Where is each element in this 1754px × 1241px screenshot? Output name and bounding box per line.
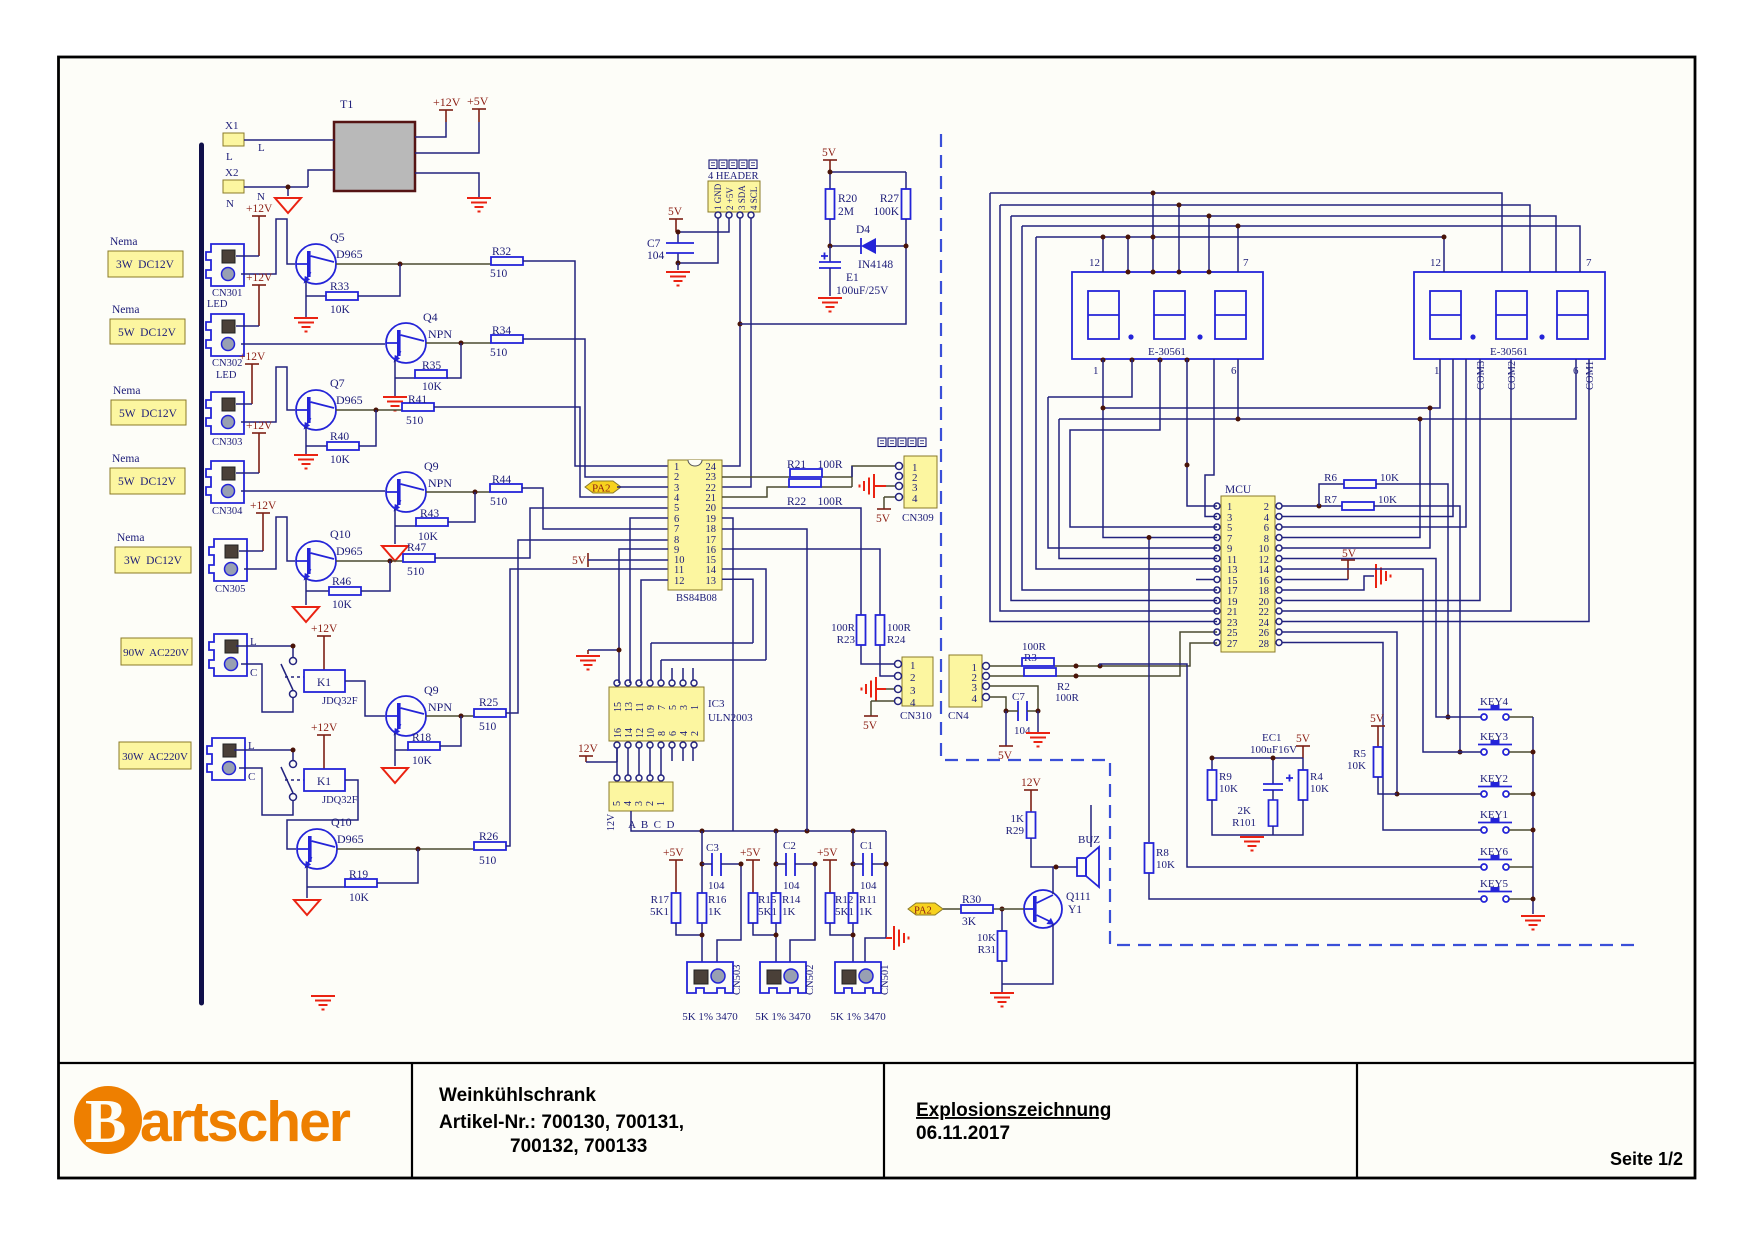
svg-text:N: N xyxy=(226,198,234,210)
svg-text:E1: E1 xyxy=(846,272,859,284)
svg-text:D965: D965 xyxy=(336,393,363,407)
svg-text:10K: 10K xyxy=(349,892,370,904)
svg-text:9: 9 xyxy=(646,705,657,710)
svg-text:+12V: +12V xyxy=(311,623,338,635)
svg-text:16: 16 xyxy=(613,728,624,738)
svg-text:Nema: Nema xyxy=(112,304,139,316)
svg-text:12V: 12V xyxy=(578,743,599,755)
svg-text:23: 23 xyxy=(706,472,717,483)
svg-text:COM1: COM1 xyxy=(1585,361,1596,390)
svg-text:3W DC12V: 3W DC12V xyxy=(116,259,175,271)
svg-text:R19: R19 xyxy=(349,869,368,881)
svg-text:Q5: Q5 xyxy=(330,230,345,244)
svg-text:4: 4 xyxy=(912,493,918,505)
svg-text:CN501: CN501 xyxy=(880,965,891,995)
svg-text:C2: C2 xyxy=(783,840,796,852)
svg-text:PA2: PA2 xyxy=(592,483,611,495)
svg-text:510: 510 xyxy=(407,566,425,578)
svg-text:100uF16V: 100uF16V xyxy=(1250,744,1297,756)
svg-text:R17: R17 xyxy=(651,894,670,906)
svg-text:3 SDA: 3 SDA xyxy=(737,185,747,210)
svg-text:R34: R34 xyxy=(492,325,511,337)
svg-text:R23: R23 xyxy=(837,634,856,646)
svg-text:6: 6 xyxy=(1264,523,1269,534)
svg-text:27: 27 xyxy=(1227,639,1238,650)
svg-text:510: 510 xyxy=(490,496,508,508)
svg-text:7: 7 xyxy=(657,705,668,710)
svg-text:104: 104 xyxy=(860,880,877,892)
svg-text:R27: R27 xyxy=(880,193,899,205)
svg-text:104: 104 xyxy=(783,880,800,892)
svg-text:10K: 10K xyxy=(1380,472,1399,484)
svg-text:25: 25 xyxy=(1227,628,1238,639)
svg-text:5W DC12V: 5W DC12V xyxy=(118,327,177,339)
svg-text:BUZ: BUZ xyxy=(1078,834,1100,846)
svg-text:+5V: +5V xyxy=(467,94,489,108)
svg-text:4 SCL: 4 SCL xyxy=(749,187,759,210)
svg-text:Artikel-Nr.: 700130, 700131,: Artikel-Nr.: 700130, 700131, xyxy=(439,1112,684,1133)
svg-text:K1: K1 xyxy=(317,677,331,689)
svg-text:510: 510 xyxy=(490,268,508,280)
svg-text:5V: 5V xyxy=(1296,733,1311,745)
svg-text:EC1: EC1 xyxy=(1262,732,1282,744)
svg-text:100uF/25V: 100uF/25V xyxy=(836,285,889,297)
svg-text:4 HEADER: 4 HEADER xyxy=(708,171,758,182)
svg-text:2M: 2M xyxy=(838,206,854,218)
svg-text:5V: 5V xyxy=(876,513,891,525)
svg-text:5V: 5V xyxy=(863,720,878,732)
svg-text:2: 2 xyxy=(690,731,701,736)
svg-text:A B C D: A B C D xyxy=(628,819,675,831)
svg-text:12: 12 xyxy=(635,728,646,738)
svg-text:NPN: NPN xyxy=(428,327,452,341)
svg-text:Y1: Y1 xyxy=(1068,904,1082,916)
svg-text:CN303: CN303 xyxy=(212,437,242,448)
svg-text:R44: R44 xyxy=(492,474,511,486)
svg-text:+5V: +5V xyxy=(740,847,761,859)
svg-text:K1: K1 xyxy=(317,776,331,788)
svg-text:1K: 1K xyxy=(859,906,873,918)
svg-text:3W DC12V: 3W DC12V xyxy=(124,555,183,567)
svg-text:R4: R4 xyxy=(1310,771,1323,783)
svg-text:Nema: Nema xyxy=(113,385,140,397)
svg-text:R6: R6 xyxy=(1324,472,1337,484)
svg-text:10K: 10K xyxy=(422,381,443,393)
svg-text:5V: 5V xyxy=(822,147,837,159)
svg-text:Q4: Q4 xyxy=(423,310,438,324)
svg-text:CN310: CN310 xyxy=(900,710,932,722)
svg-text:N: N xyxy=(257,191,265,203)
svg-text:5: 5 xyxy=(668,705,679,710)
svg-text:CN309: CN309 xyxy=(902,512,934,524)
svg-text:IC3: IC3 xyxy=(708,698,725,710)
svg-text:10K: 10K xyxy=(1156,859,1175,871)
svg-text:8: 8 xyxy=(657,731,668,736)
svg-text:R25: R25 xyxy=(479,697,498,709)
svg-text:12: 12 xyxy=(674,576,685,587)
svg-text:11: 11 xyxy=(635,702,646,712)
svg-text:5: 5 xyxy=(1227,523,1232,534)
svg-text:14: 14 xyxy=(1259,565,1270,576)
svg-text:100R: 100R xyxy=(887,622,912,634)
svg-text:20: 20 xyxy=(706,503,717,514)
svg-text:D965: D965 xyxy=(337,832,364,846)
svg-text:IN4148: IN4148 xyxy=(858,259,893,271)
svg-text:4: 4 xyxy=(623,801,634,806)
svg-text:14: 14 xyxy=(624,728,635,738)
svg-text:JDQ32F: JDQ32F xyxy=(322,795,358,806)
svg-text:12: 12 xyxy=(1089,257,1100,269)
svg-text:+5V: +5V xyxy=(663,847,684,859)
svg-text:D965: D965 xyxy=(336,544,363,558)
svg-text:R18: R18 xyxy=(412,732,431,744)
svg-text:10K: 10K xyxy=(332,599,353,611)
svg-text:700132, 700133: 700132, 700133 xyxy=(510,1136,647,1157)
svg-text:10K: 10K xyxy=(1219,783,1238,795)
svg-text:17: 17 xyxy=(1227,586,1238,597)
svg-text:COM3: COM3 xyxy=(1476,361,1487,390)
svg-text:28: 28 xyxy=(1259,639,1270,650)
svg-text:26: 26 xyxy=(1259,628,1270,639)
svg-text:100R: 100R xyxy=(1055,692,1080,704)
svg-text:R5: R5 xyxy=(1353,748,1366,760)
svg-text:2K: 2K xyxy=(1238,805,1252,817)
svg-text:5V: 5V xyxy=(1370,713,1385,725)
svg-text:+12V: +12V xyxy=(246,272,273,284)
svg-text:12V: 12V xyxy=(606,813,617,831)
svg-text:Q9: Q9 xyxy=(424,683,439,697)
svg-text:MCU: MCU xyxy=(1225,484,1252,496)
svg-text:30W AC220V: 30W AC220V xyxy=(122,751,188,763)
svg-text:+5V: +5V xyxy=(817,847,838,859)
svg-text:+12V: +12V xyxy=(246,203,273,215)
svg-text:CN304: CN304 xyxy=(212,506,243,517)
svg-text:R40: R40 xyxy=(330,431,349,443)
svg-text:+12V: +12V xyxy=(239,351,266,363)
svg-text:7: 7 xyxy=(1243,257,1249,269)
svg-text:R30: R30 xyxy=(962,894,981,906)
svg-text:5K1: 5K1 xyxy=(835,906,854,918)
svg-text:COM2: COM2 xyxy=(1507,361,1518,390)
svg-text:10K: 10K xyxy=(412,755,433,767)
svg-text:C: C xyxy=(250,667,257,679)
svg-text:R8: R8 xyxy=(1156,847,1169,859)
svg-text:510: 510 xyxy=(479,721,497,733)
svg-text:Q10: Q10 xyxy=(331,815,352,829)
svg-text:R15: R15 xyxy=(758,894,777,906)
svg-text:10K: 10K xyxy=(1347,760,1366,772)
svg-text:Nema: Nema xyxy=(112,453,139,465)
svg-text:15: 15 xyxy=(613,702,624,712)
svg-text:1: 1 xyxy=(1227,502,1232,513)
svg-text:1: 1 xyxy=(1434,365,1440,377)
svg-text:6: 6 xyxy=(668,731,679,736)
svg-text:Q10: Q10 xyxy=(330,527,351,541)
svg-text:X2: X2 xyxy=(225,167,238,179)
svg-text:R16: R16 xyxy=(708,894,727,906)
svg-text:T1: T1 xyxy=(340,97,353,111)
svg-text:CN502: CN502 xyxy=(805,965,816,995)
svg-text:10K: 10K xyxy=(330,454,351,466)
svg-text:+12V: +12V xyxy=(311,722,338,734)
svg-text:C3: C3 xyxy=(706,842,719,854)
svg-text:L: L xyxy=(226,151,233,163)
svg-text:X1: X1 xyxy=(225,120,238,132)
svg-text:+12V: +12V xyxy=(246,420,273,432)
svg-text:104: 104 xyxy=(708,880,725,892)
svg-text:5K 1% 3470: 5K 1% 3470 xyxy=(682,1011,738,1023)
svg-text:R31: R31 xyxy=(978,944,996,956)
svg-text:artscher: artscher xyxy=(140,1090,351,1154)
svg-text:10K: 10K xyxy=(1310,783,1329,795)
svg-text:L: L xyxy=(258,142,265,154)
svg-text:22: 22 xyxy=(1259,607,1270,618)
svg-text:2: 2 xyxy=(645,801,656,806)
svg-text:4: 4 xyxy=(972,693,978,705)
svg-text:510: 510 xyxy=(479,855,497,867)
svg-text:R20: R20 xyxy=(838,193,857,205)
svg-text:R7: R7 xyxy=(1324,494,1337,506)
svg-text:ULN2003: ULN2003 xyxy=(708,712,753,724)
svg-text:100R: 100R xyxy=(831,622,856,634)
svg-text:3: 3 xyxy=(634,801,645,806)
svg-text:BS84B08: BS84B08 xyxy=(676,593,717,604)
svg-text:510: 510 xyxy=(490,347,508,359)
svg-text:D4: D4 xyxy=(856,224,870,236)
svg-text:18: 18 xyxy=(706,524,717,535)
svg-text:14: 14 xyxy=(706,565,717,576)
svg-text:LED: LED xyxy=(216,370,237,381)
svg-text:1: 1 xyxy=(656,801,667,806)
svg-text:R29: R29 xyxy=(1006,825,1025,837)
svg-text:Nema: Nema xyxy=(110,236,137,248)
svg-text:13: 13 xyxy=(706,576,717,587)
svg-text:5K 1% 3470: 5K 1% 3470 xyxy=(755,1011,811,1023)
svg-text:R47: R47 xyxy=(407,542,426,554)
svg-text:LED: LED xyxy=(207,299,228,310)
svg-text:1K: 1K xyxy=(782,906,796,918)
svg-text:CN301: CN301 xyxy=(212,288,242,299)
svg-text:CN503: CN503 xyxy=(732,965,743,995)
svg-text:Q7: Q7 xyxy=(330,376,345,390)
svg-text:CN305: CN305 xyxy=(215,584,245,595)
svg-text:R22 100R: R22 100R xyxy=(787,496,843,508)
svg-text:18: 18 xyxy=(1259,586,1270,597)
svg-text:Nema: Nema xyxy=(117,532,144,544)
svg-text:2 +5V: 2 +5V xyxy=(725,187,735,210)
svg-text:5K1: 5K1 xyxy=(758,906,777,918)
svg-text:10K: 10K xyxy=(1378,494,1397,506)
svg-text:D965: D965 xyxy=(336,247,363,261)
svg-text:9: 9 xyxy=(1227,544,1232,555)
svg-text:C: C xyxy=(248,771,255,783)
svg-text:13: 13 xyxy=(1227,565,1238,576)
svg-text:5W DC12V: 5W DC12V xyxy=(118,476,177,488)
svg-text:90W AC220V: 90W AC220V xyxy=(123,647,189,659)
svg-text:JDQ32F: JDQ32F xyxy=(322,696,358,707)
svg-text:3: 3 xyxy=(679,705,690,710)
svg-text:R101: R101 xyxy=(1232,817,1256,829)
svg-text:Explosionszeichnung: Explosionszeichnung xyxy=(916,1100,1111,1121)
svg-text:2: 2 xyxy=(1264,502,1269,513)
svg-text:1K: 1K xyxy=(708,906,722,918)
svg-text:2: 2 xyxy=(910,672,916,684)
svg-text:13: 13 xyxy=(624,702,635,712)
svg-text:12V: 12V xyxy=(1021,777,1042,789)
svg-text:R14: R14 xyxy=(782,894,801,906)
svg-text:R43: R43 xyxy=(420,508,439,520)
svg-text:5K1: 5K1 xyxy=(650,906,669,918)
svg-text:6: 6 xyxy=(1231,365,1237,377)
svg-text:3: 3 xyxy=(910,685,916,697)
svg-text:10: 10 xyxy=(1259,544,1270,555)
svg-text:C1: C1 xyxy=(860,840,873,852)
svg-text:1 GND: 1 GND xyxy=(713,183,723,210)
svg-text:R9: R9 xyxy=(1219,771,1232,783)
svg-text:Weinkühlschrank: Weinkühlschrank xyxy=(439,1085,596,1106)
svg-text:5W DC12V: 5W DC12V xyxy=(119,408,178,420)
svg-text:R41: R41 xyxy=(408,394,427,406)
svg-text:Q111: Q111 xyxy=(1066,891,1091,903)
svg-text:Seite 1/2: Seite 1/2 xyxy=(1610,1149,1683,1169)
svg-text:104: 104 xyxy=(1014,725,1031,737)
svg-text:12: 12 xyxy=(1430,257,1441,269)
svg-text:1: 1 xyxy=(1093,365,1099,377)
svg-text:100K: 100K xyxy=(873,206,899,218)
svg-text:4: 4 xyxy=(910,697,916,709)
svg-text:10: 10 xyxy=(646,728,657,738)
svg-text:06.11.2017: 06.11.2017 xyxy=(916,1123,1010,1144)
svg-text:Q9: Q9 xyxy=(424,459,439,473)
svg-text:5K 1% 3470: 5K 1% 3470 xyxy=(830,1011,886,1023)
svg-text:R11: R11 xyxy=(859,894,877,906)
svg-text:1K: 1K xyxy=(1011,813,1025,825)
svg-text:NPN: NPN xyxy=(428,700,452,714)
svg-text:NPN: NPN xyxy=(428,476,452,490)
svg-text:C7: C7 xyxy=(647,238,661,250)
svg-text:+12V: +12V xyxy=(250,500,277,512)
svg-text:R12: R12 xyxy=(835,894,853,906)
svg-text:+12V: +12V xyxy=(433,95,461,109)
svg-text:510: 510 xyxy=(406,415,424,427)
svg-text:104: 104 xyxy=(647,250,665,262)
svg-text:1: 1 xyxy=(910,660,916,672)
svg-text:R26: R26 xyxy=(479,831,498,843)
svg-text:5V: 5V xyxy=(668,206,683,218)
svg-text:R33: R33 xyxy=(330,281,349,293)
svg-text:10K: 10K xyxy=(977,932,996,944)
svg-text:CN4: CN4 xyxy=(948,710,969,722)
svg-text:10K: 10K xyxy=(330,304,351,316)
svg-text:4: 4 xyxy=(679,731,690,736)
svg-text:7: 7 xyxy=(1586,257,1592,269)
svg-text:B: B xyxy=(85,1088,126,1156)
svg-text:CN302: CN302 xyxy=(212,358,242,369)
svg-text:3K: 3K xyxy=(962,916,977,928)
svg-text:PA2: PA2 xyxy=(914,906,932,917)
svg-text:7: 7 xyxy=(674,524,679,535)
svg-text:R35: R35 xyxy=(422,360,441,372)
svg-text:R24: R24 xyxy=(887,634,906,646)
svg-text:11: 11 xyxy=(674,565,684,576)
svg-text:1: 1 xyxy=(690,705,701,710)
svg-text:5: 5 xyxy=(674,503,679,514)
svg-text:2: 2 xyxy=(674,472,679,483)
svg-text:5: 5 xyxy=(612,801,623,806)
svg-text:5V: 5V xyxy=(572,555,587,567)
svg-text:R46: R46 xyxy=(332,576,351,588)
svg-text:R21 100R: R21 100R xyxy=(787,459,843,471)
svg-text:R32: R32 xyxy=(492,246,511,258)
svg-text:21: 21 xyxy=(1227,607,1238,618)
